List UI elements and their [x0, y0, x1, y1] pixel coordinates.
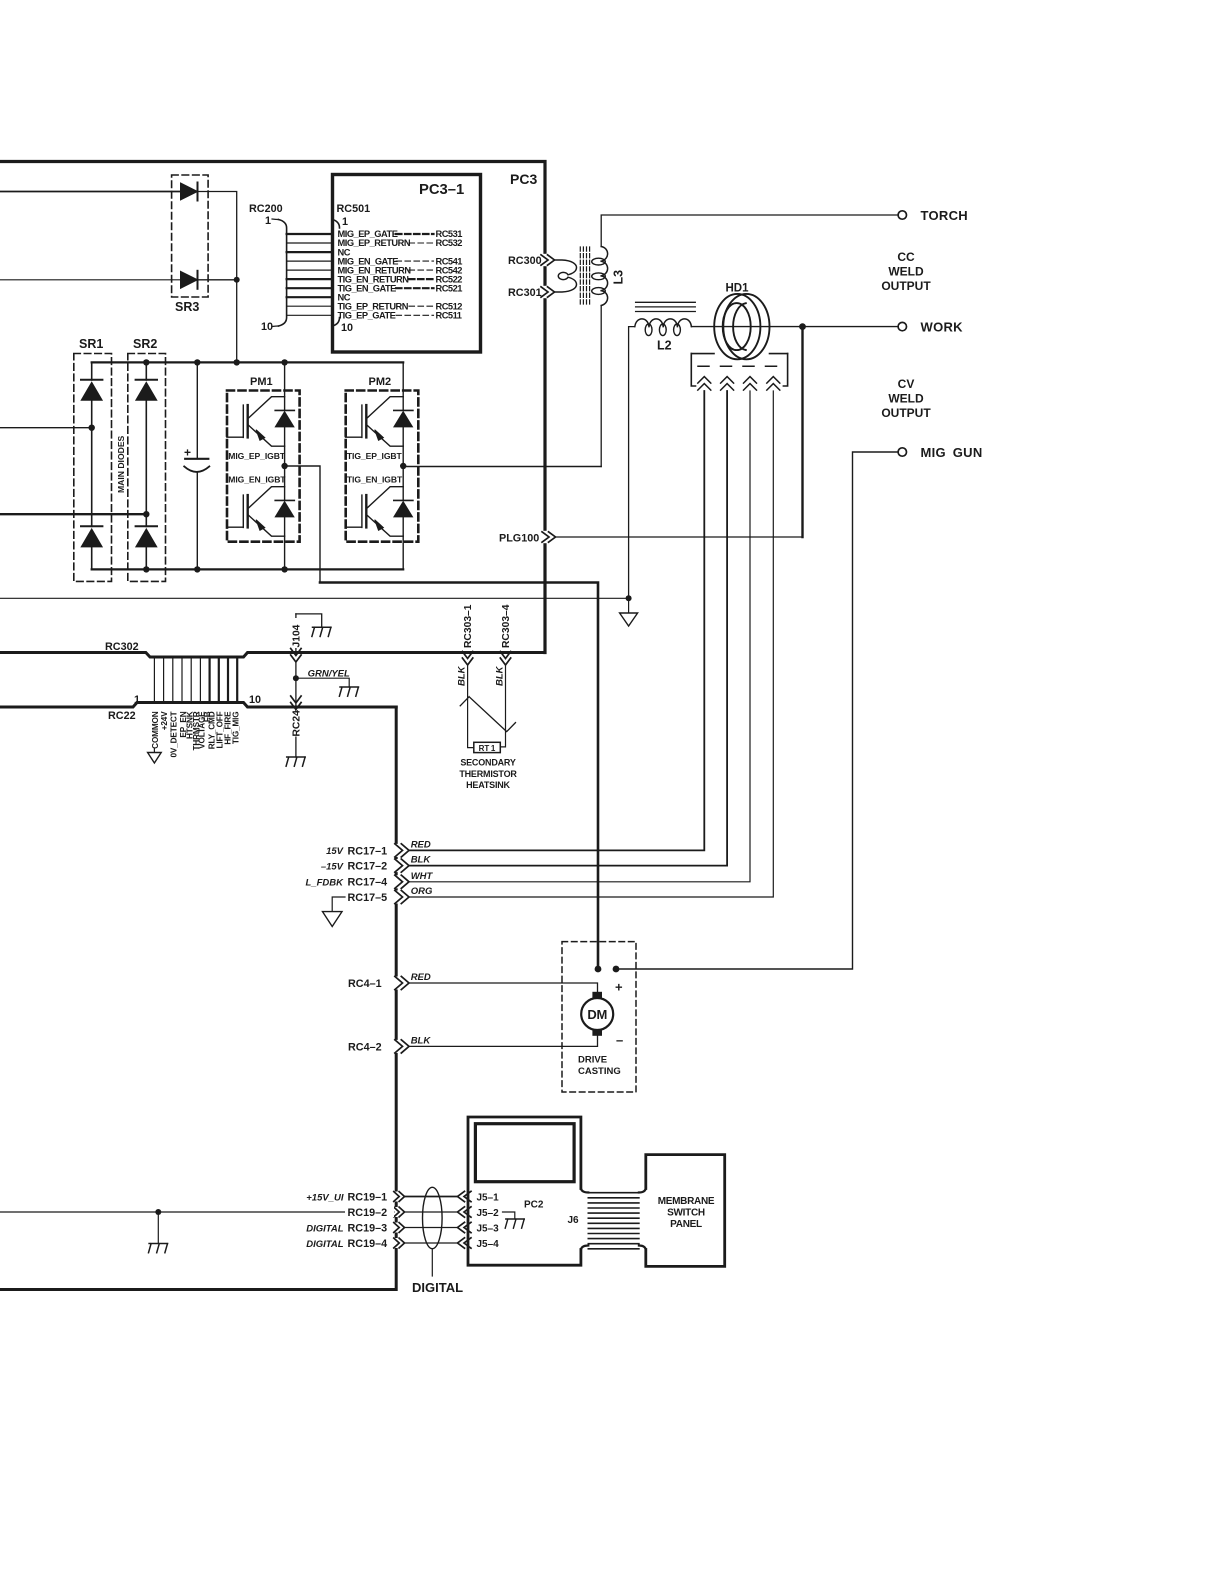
tick pin1 RC200 — [272, 218, 279, 221]
svg-text:COMMON: COMMON — [151, 711, 160, 749]
wire RC303-1 down to RT1 — [468, 665, 474, 748]
membrane switch panel box — [646, 1155, 725, 1267]
PM2 collector rail — [402, 362, 404, 569]
wire PM2 output (TIG) to L3 — [403, 466, 601, 468]
svg-text:TIG_MIG: TIG_MIG — [232, 712, 241, 745]
svg-text:+: + — [615, 980, 623, 995]
connector RC200 bracket — [279, 220, 287, 327]
svg-text:RC17–1: RC17–1 — [348, 845, 388, 857]
svg-text:SWITCH: SWITCH — [667, 1208, 705, 1219]
connector RC19-3 chevron — [394, 1223, 405, 1233]
svg-text:WHT: WHT — [411, 871, 434, 882]
motor brush squares — [592, 992, 602, 998]
wire PLG100 to WORK junction — [556, 536, 803, 538]
transistor TIG_EP_IGBT (PM2 top) — [346, 397, 404, 447]
svg-text:RC200: RC200 — [249, 203, 283, 215]
cable bundle ellipse — [423, 1187, 443, 1248]
svg-text:DIGITAL: DIGITAL — [412, 1280, 463, 1295]
dashed tie to RC532 — [409, 242, 434, 244]
connector RC501 bracket top curl — [333, 220, 340, 229]
svg-text:RC19–3: RC19–3 — [348, 1223, 388, 1235]
sensor box left bracket — [691, 354, 695, 386]
connector RC4-2 chevron — [395, 1040, 409, 1053]
J104 vertical wire above bus — [295, 614, 297, 653]
node bus-SR2 — [143, 359, 149, 365]
svg-text:DIGITAL: DIGITAL — [306, 1224, 343, 1235]
wire RC302/RC22 pin 1 — [153, 657, 155, 703]
node ground junction on L2 lead — [626, 595, 632, 601]
J104 chassis ground arm — [296, 614, 322, 627]
svg-text:CV: CV — [898, 377, 915, 391]
pointer line to DIGITAL — [431, 1249, 433, 1276]
ground triangle RC17-5 — [323, 912, 343, 927]
current sensor HD1 torus — [714, 294, 769, 359]
connector J5-2 chevron — [458, 1207, 472, 1217]
diode PM2 bottom — [394, 500, 413, 517]
svg-text:ORG: ORG — [411, 886, 433, 897]
display window on PC2 — [475, 1124, 574, 1182]
PC2 edge curl top of J6 — [581, 1189, 588, 1193]
transformer L3 secondary winding — [601, 247, 607, 306]
svg-text:RC511: RC511 — [436, 311, 462, 321]
connector RC17-1 chevron — [395, 844, 409, 857]
svg-text:SR3: SR3 — [175, 300, 199, 314]
svg-text:J5–2: J5–2 — [477, 1208, 500, 1219]
SR3 dashed box — [172, 175, 209, 297]
RC24 label (rotated, masks wire) — [291, 713, 302, 737]
svg-text:RC302: RC302 — [105, 641, 139, 653]
svg-text:1: 1 — [342, 216, 348, 228]
svg-text:RT 1: RT 1 — [479, 744, 496, 753]
wire RC200 pin 5 — [287, 269, 333, 271]
svg-text:OUTPUT: OUTPUT — [881, 279, 931, 293]
wire RC19-2 to J5-2 — [405, 1211, 459, 1213]
diode SR1 bottom — [81, 526, 102, 547]
wire PM1 output (MIG) right-down-right — [285, 466, 320, 583]
svg-text:SR1: SR1 — [79, 337, 103, 351]
svg-text:J5–1: J5–1 — [477, 1193, 500, 1204]
connector RC24 chevron (down) — [291, 696, 301, 710]
svg-text:RC303–4: RC303–4 — [501, 604, 512, 648]
svg-text:10: 10 — [341, 322, 353, 334]
sensor box right bracket — [783, 354, 787, 386]
svg-text:MIG_EP_IGBT: MIG_EP_IGBT — [228, 451, 286, 461]
svg-text:MIG GUN: MIG GUN — [921, 445, 983, 460]
svg-text:PC2: PC2 — [524, 1200, 544, 1211]
svg-text:RC300: RC300 — [508, 255, 542, 267]
top DC bus — [92, 361, 404, 363]
capacitor C1 leads — [196, 362, 198, 569]
wire RC302/RC22 pin 4 — [181, 657, 183, 703]
svg-text:RC17–2: RC17–2 — [348, 861, 388, 873]
node bus2-PM1 — [281, 566, 287, 572]
node PM2 mid — [400, 463, 406, 469]
svg-text:WELD: WELD — [888, 392, 924, 406]
thermistor RT1 diagonal — [460, 697, 515, 732]
wire MIG GUN to drive motor — [616, 452, 898, 969]
svg-text:THERMISTOR: THERMISTOR — [459, 769, 517, 779]
node WORK junction — [799, 323, 806, 330]
svg-text:L2: L2 — [657, 339, 672, 353]
wire WORK bus through HD1 — [691, 326, 897, 328]
svg-text:–: – — [616, 1033, 623, 1048]
wire RC302/RC22 pin 2 — [163, 657, 165, 703]
svg-text:L3: L3 — [612, 270, 626, 285]
wire input to SR1 mid — [0, 427, 92, 429]
wire RC200 pin 1 — [287, 233, 333, 235]
connector J5-4 chevron — [458, 1238, 472, 1248]
wire L2 left lead down — [629, 327, 635, 599]
svg-text:RC521: RC521 — [436, 283, 463, 293]
wire RC302/RC22 pin 3 — [172, 657, 174, 703]
ground triangle under COMMON — [153, 749, 155, 753]
svg-text:SR2: SR2 — [133, 337, 157, 351]
IGBT module PM2 dashed box — [346, 391, 419, 542]
ribbon cable J6 — [588, 1193, 639, 1249]
wire RC302/RC22 pin 5 — [190, 657, 192, 703]
transformer L3 primary winding — [555, 260, 577, 292]
wire RC200 pin 2 — [287, 242, 333, 244]
svg-text:+: + — [184, 446, 191, 460]
chassis ground rake (J104) — [312, 627, 331, 636]
wire junction to chassis ground — [157, 1212, 159, 1244]
wire RC19-4 to J5-4 — [405, 1242, 459, 1244]
node bus2-capacitor — [194, 566, 200, 572]
connector J5-3 chevron — [458, 1222, 472, 1232]
SR2 branch vertical — [145, 362, 147, 569]
svg-text:TIG_EN_IGBT: TIG_EN_IGBT — [347, 474, 403, 484]
diode PM2 top — [394, 410, 413, 427]
wire input to SR3 diode D1 — [0, 191, 182, 193]
svg-text:CASTING: CASTING — [578, 1066, 621, 1077]
diode SR1 top — [81, 380, 102, 401]
wire J104 to RC24 to ground — [295, 662, 297, 757]
svg-text:RED: RED — [411, 840, 431, 851]
dashed tie to RC531 — [396, 233, 434, 235]
sensor box dashed separator — [698, 365, 781, 367]
wire L3 bottom lead down to TIG output — [600, 306, 602, 467]
dashed tie to RC511 — [396, 314, 434, 316]
connector RC19-4 chevron — [394, 1238, 405, 1248]
wire input to SR2 mid (thick) — [0, 513, 146, 515]
svg-text:–15V: –15V — [321, 862, 344, 873]
wire RC200 pin 7 — [287, 287, 333, 289]
svg-text:RC17–5: RC17–5 — [348, 892, 388, 904]
node bus-capacitor — [194, 359, 200, 365]
svg-text:TORCH: TORCH — [921, 208, 968, 223]
svg-text:PM1: PM1 — [250, 376, 273, 388]
PM1 collector rail — [284, 362, 286, 569]
svg-text:RC4–1: RC4–1 — [348, 978, 382, 990]
motor DM circle — [581, 998, 613, 1030]
svg-text:PM2: PM2 — [369, 376, 392, 388]
wire MIG output thick run — [320, 583, 598, 970]
wire RC302/RC22 pin 10 — [236, 657, 238, 703]
wire SR3-D1 output to vertical — [197, 192, 237, 280]
capacitor C1 top plate — [185, 458, 208, 460]
svg-text:RC19–2: RC19–2 — [348, 1207, 388, 1219]
wire RC200 pin 4 — [287, 260, 333, 262]
svg-text:J5–3: J5–3 — [477, 1224, 500, 1235]
svg-text:WELD: WELD — [888, 265, 924, 279]
svg-text:OUTPUT: OUTPUT — [881, 406, 931, 420]
connector J5-1 chevron — [458, 1191, 472, 1201]
terminal WORK circle — [898, 322, 906, 330]
wire RC200 pin 9 — [287, 305, 333, 307]
svg-text:PLG100: PLG100 — [499, 533, 539, 545]
thermistor RT1 box — [474, 742, 501, 752]
svg-text:MEMBRANE: MEMBRANE — [658, 1196, 715, 1207]
user interface board PC2 outline — [468, 1117, 581, 1265]
connector RC17-4 chevron — [395, 875, 409, 888]
svg-text:1: 1 — [134, 694, 140, 706]
capacitor C1 curved plate — [184, 466, 209, 472]
svg-text:WORK: WORK — [921, 320, 964, 335]
wire GRN/YEL branch to chassis ground — [296, 678, 349, 687]
svg-text:HD1: HD1 — [726, 283, 750, 295]
connector RC303-1 chevron (down on bus) — [462, 652, 472, 666]
node GRN/YEL junction — [293, 675, 299, 681]
svg-text:1: 1 — [265, 215, 271, 227]
chassis ground rake (RC24) — [286, 757, 305, 766]
connector RC501 bracket bottom curl — [333, 318, 340, 327]
svg-text:MIG_EN_IGBT: MIG_EN_IGBT — [228, 474, 286, 484]
ground (open triangle) below junction — [628, 598, 630, 613]
svg-text:BLK: BLK — [457, 665, 468, 686]
svg-text:RC4–2: RC4–2 — [348, 1041, 382, 1053]
connector RC19-1 chevron — [394, 1192, 405, 1202]
svg-text:J5–4: J5–4 — [477, 1239, 500, 1250]
connector J104 chevron (down) — [291, 649, 301, 663]
connector RC17-5 chevron — [395, 890, 409, 903]
connector RC303-4 chevron (down on bus) — [500, 652, 510, 666]
wire RC200 pin 10 — [287, 314, 333, 316]
sensor wire WHT down to RC17-4 — [409, 391, 750, 882]
node bus2-SR2 — [143, 566, 149, 572]
chassis ground rake (RC19-2) — [149, 1244, 168, 1253]
node bus-SR3 — [234, 359, 240, 365]
transformer L3 core — [580, 247, 589, 306]
sensor wire RED down to RC17-1 — [409, 391, 704, 850]
wire RC17-5 to ground — [332, 897, 345, 912]
svg-text:BLK: BLK — [411, 1036, 432, 1047]
svg-text:DM: DM — [587, 1007, 607, 1022]
svg-text:PC3–1: PC3–1 — [419, 182, 464, 198]
PC2 edge curl bottom of J6 — [581, 1246, 588, 1250]
svg-text:0V_DETECT: 0V_DETECT — [169, 711, 178, 757]
node PM1 mid — [281, 463, 287, 469]
membrane panel edge curls at ribbon — [639, 1189, 646, 1250]
svg-text:RC501: RC501 — [337, 203, 371, 215]
wire RC303-4 down to RT1 — [500, 665, 505, 747]
dashed tie to RC512 — [409, 305, 434, 307]
wire J5-2 to chassis ground — [503, 1212, 515, 1219]
svg-text:TIG_EP_GATE: TIG_EP_GATE — [338, 311, 396, 321]
chassis ground rake (J5-2) — [505, 1219, 524, 1228]
board bus RC302 (thick) with connector comb — [0, 653, 545, 658]
rectifier SR2 dashed box — [128, 354, 166, 582]
wire L3 top to TORCH — [601, 215, 898, 247]
svg-text:DRIVE: DRIVE — [578, 1055, 607, 1066]
wire RC4-1 to motor plus brush — [409, 983, 598, 992]
tick pin10 RC200 — [272, 325, 279, 328]
sensor wire ORG down to RC17-5 — [409, 391, 773, 897]
chassis ground rake (GRN/YEL) — [339, 687, 358, 696]
node SR1 mid — [89, 425, 95, 431]
drive casting dashed box — [562, 942, 636, 1092]
node bus-PM1 — [281, 359, 287, 365]
svg-text:RC22: RC22 — [108, 710, 136, 722]
svg-text:BLK: BLK — [411, 855, 432, 866]
connector RC22 comb bottom and bus (thick) — [0, 703, 396, 708]
svg-text:DIGITAL: DIGITAL — [306, 1239, 343, 1250]
inductor L2 core — [636, 302, 696, 311]
connector RC300 chevron — [543, 254, 547, 266]
diode SR2 top — [136, 380, 157, 401]
connector RC4-1 chevron — [395, 976, 409, 989]
wire RC4-2 to motor minus brush — [409, 1036, 598, 1046]
connector RC19-2 chevron — [394, 1207, 405, 1217]
svg-text:PC3: PC3 — [510, 171, 537, 187]
diode PM1 top — [275, 410, 294, 427]
dashed tie to RC521 — [396, 287, 434, 289]
connector RC301 chevron — [543, 286, 547, 298]
svg-text:10: 10 — [249, 694, 261, 706]
op board PC3-1 box — [333, 175, 481, 353]
wire RC200 pin 8 — [287, 296, 333, 298]
svg-text:BLK: BLK — [494, 665, 505, 686]
svg-text:RED: RED — [411, 972, 431, 983]
transistor TIG_EN_IGBT (PM2 bottom) — [346, 487, 404, 537]
svg-text:PANEL: PANEL — [670, 1219, 702, 1230]
svg-text:RC301: RC301 — [508, 287, 542, 299]
svg-text:CC: CC — [897, 250, 915, 264]
wire SR3-D2 output junction — [197, 280, 237, 363]
svg-text:L_FDBK: L_FDBK — [306, 878, 345, 889]
rail gaps at connector chevrons — [394, 844, 399, 857]
svg-text:+24V: +24V — [160, 711, 169, 730]
diode SR3-D2 — [181, 271, 198, 289]
wire RC302/RC22 pin 7 — [209, 657, 211, 703]
L3 secondary loop ellipses — [592, 258, 606, 294]
svg-text:+15V_UI: +15V_UI — [306, 1192, 344, 1203]
connector RC17-2 chevron — [395, 859, 409, 872]
svg-text:SECONDARY: SECONDARY — [460, 758, 516, 768]
node RC19-2 ground junction — [155, 1209, 161, 1215]
inductor L2 winding — [635, 319, 692, 327]
L2 winding loop ellipses — [645, 324, 680, 336]
bottom DC bus — [92, 568, 404, 570]
sensor wire BLK down to RC17-2 — [409, 391, 727, 866]
diode SR2 bottom — [136, 526, 157, 547]
svg-text:RC303–1: RC303–1 — [463, 604, 474, 648]
terminal TORCH circle — [898, 211, 906, 219]
wire to ground junction from left — [0, 597, 629, 599]
wire RC200 pin 6 — [287, 278, 333, 280]
node SR2 mid — [143, 511, 149, 517]
wire RC302/RC22 pin 8 — [218, 657, 220, 703]
wire main board left rail (thick vertical) — [0, 707, 396, 1290]
wire WORK junction down to PLG100 — [801, 327, 803, 537]
svg-text:RC24: RC24 — [291, 710, 302, 737]
node SR3 output junction — [234, 277, 240, 283]
diode SR3-D1 — [181, 183, 198, 201]
SR1 branch vertical — [91, 362, 93, 569]
svg-text:TIG_EP_IGBT: TIG_EP_IGBT — [347, 451, 403, 461]
svg-text:J6: J6 — [568, 1215, 580, 1226]
transistor MIG_EN_IGBT (PM1 bottom) — [227, 487, 285, 537]
svg-text:RC19–1: RC19–1 — [348, 1192, 388, 1204]
sensor box top bar (interrupted by HD1) — [691, 353, 787, 355]
node MIG GUN pin — [613, 966, 620, 973]
wire RC19-3 to J5-3 — [405, 1227, 459, 1229]
sensor output arrows (4x double chevron up) — [698, 377, 780, 391]
connector PLG100 chevron — [543, 531, 547, 543]
wire input to SR3 diode D2 — [0, 279, 182, 281]
wire RC302/RC22 pin 6 — [199, 657, 201, 703]
wire RC302/RC22 pin 9 — [227, 657, 229, 703]
dashed tie to RC541 — [396, 260, 434, 262]
svg-text:15V: 15V — [326, 846, 344, 857]
node motor plus pin — [595, 966, 602, 973]
dashed tie to RC522 — [409, 278, 434, 280]
PC3 board outline (thick) — [0, 162, 545, 653]
svg-text:HEATSINK: HEATSINK — [466, 780, 510, 790]
svg-text:RC532: RC532 — [436, 238, 463, 248]
terminal MIG GUN circle — [898, 448, 906, 456]
svg-text:MAIN DIODES: MAIN DIODES — [116, 435, 126, 493]
rectifier SR1 dashed box — [74, 354, 112, 582]
svg-text:RC17–4: RC17–4 — [348, 877, 388, 889]
J104 label (rotated, masks wire) — [291, 618, 302, 648]
transistor MIG_EP_IGBT (PM1 top) — [227, 397, 285, 447]
dashed tie to RC542 — [409, 269, 434, 271]
wire RC19-2 from left edge — [0, 1211, 394, 1213]
IGBT module PM1 dashed box — [227, 391, 300, 542]
wire RC19-1 to J5-1 — [405, 1196, 459, 1198]
svg-text:RC19–4: RC19–4 — [348, 1238, 388, 1250]
svg-text:10: 10 — [261, 321, 273, 333]
svg-text:J104: J104 — [291, 624, 302, 647]
diode PM1 bottom — [275, 500, 294, 517]
wire RC200 pin 3 — [287, 251, 333, 253]
